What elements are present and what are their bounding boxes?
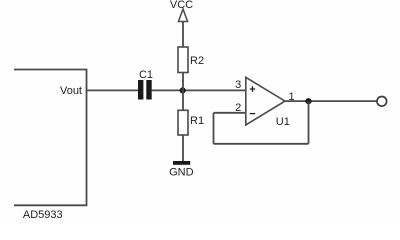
wire feedback vertical from output: [308, 101, 310, 144]
wire R1 to GND: [182, 135, 184, 161]
svg-text:R2: R2: [190, 55, 204, 67]
node B junction dot: [305, 98, 311, 104]
op-amp minus sign: [250, 113, 255, 115]
wire feedback left vertical: [213, 113, 215, 144]
wire output: [285, 100, 376, 102]
resistor R2: [178, 47, 188, 73]
power VCC arrow: [178, 9, 187, 22]
capacitor C1: [138, 80, 152, 100]
svg-text:Vout: Vout: [60, 85, 82, 97]
resistor R1: [178, 110, 188, 135]
wire C1 to node A: [152, 89, 183, 91]
wire feedback to pin 2: [214, 112, 246, 114]
node A junction dot: [180, 87, 186, 93]
wire Vout to C1: [87, 89, 139, 91]
wire R2 to node A: [182, 73, 184, 91]
svg-text:VCC: VCC: [170, 0, 193, 11]
wire node A to R1: [182, 90, 184, 110]
op-amp plus sign: [250, 86, 255, 91]
wire VCC to R2: [182, 22, 184, 48]
svg-text:R1: R1: [190, 115, 204, 127]
svg-text:AD5933: AD5933: [23, 209, 63, 219]
svg-text:U1: U1: [276, 116, 290, 128]
svg-text:GND: GND: [169, 167, 194, 179]
output terminal circle: [377, 97, 387, 107]
wire feedback bottom: [214, 143, 309, 145]
svg-text:3: 3: [235, 79, 241, 91]
op-amp U1 triangle: [246, 77, 285, 125]
IC box AD5933 (open on left side): [14, 70, 87, 206]
ground GND bar: [173, 161, 190, 165]
wire node A to U1 pin 3: [183, 89, 246, 91]
svg-text:C1: C1: [139, 69, 153, 81]
